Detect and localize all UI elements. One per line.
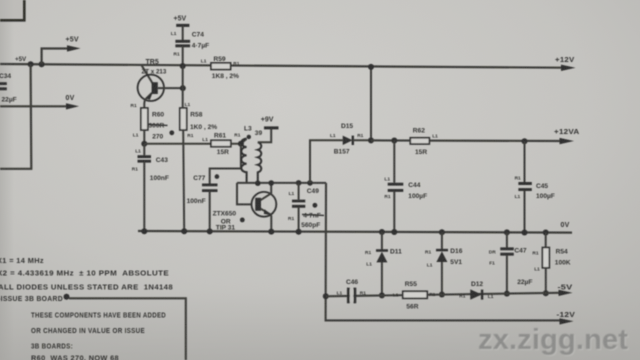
wire C45 to 0V bus [524, 191, 526, 232]
watermark zx.zigg.net [478, 324, 630, 357]
arrow +12V (top right) [561, 65, 576, 71]
top-left darker page corner [0, 0, 24, 20]
resistor R55 [403, 291, 427, 298]
node R54/0V [543, 230, 549, 236]
node C44 top [391, 138, 397, 144]
capacitor C47 plates [500, 249, 514, 254]
capacitor C45 plates [518, 184, 531, 190]
wire +5V bar to C74 [182, 25, 184, 40]
zener D16 [436, 249, 448, 252]
resistor R60 [141, 108, 148, 130]
node C49 top [296, 180, 302, 186]
transistor TR4 circle [252, 192, 277, 217]
border corner of adjacent drawing frame [0, 0, 24, 20]
wire TR4 base drop [237, 183, 252, 205]
arrow +12VA [560, 138, 575, 144]
capacitor C46 plates [348, 288, 355, 304]
capacitor C43 wire [143, 144, 145, 156]
transformer L3 left winding [241, 139, 246, 183]
resistor R59 [211, 63, 231, 70]
marker dot (L3) [247, 135, 251, 139]
transistor TR5 circle [138, 75, 164, 101]
resistor R54 wire top [545, 233, 547, 248]
arrow 0V [66, 103, 79, 109]
node TR5 base junction [180, 85, 186, 91]
node TR4/0V [268, 229, 274, 235]
wire left vertical from bus down then off left edge [0, 64, 31, 169]
node C49/0V [296, 229, 302, 235]
node D15 branch [307, 180, 313, 186]
left edge shade [0, 0, 14, 360]
diode D15 [343, 136, 353, 145]
arrow +5V [67, 45, 81, 51]
node +12VA line / feed [368, 137, 374, 143]
capacitor C74 +5V rail bar [176, 24, 189, 27]
wire right winding top to +9V [258, 129, 271, 142]
node R61/C77 junction [238, 141, 244, 147]
resistor R54 [542, 248, 549, 268]
arrow -5V [559, 290, 573, 296]
node right winding bottom on flyback line [255, 180, 261, 186]
capacitor C45 wire [524, 141, 526, 182]
wire -5V line [326, 293, 559, 297]
capacitor C34 plates at left edge [0, 84, 7, 89]
resistor R58 [180, 108, 187, 130]
marker dot (C77 change) [215, 174, 220, 179]
wire R60 node to transformer (base drive) [144, 139, 246, 144]
capacitor C49 wire top [298, 183, 300, 200]
node C44/0V [391, 229, 397, 235]
capacitor C74 plates [175, 41, 190, 46]
transistor TR5 base bar [152, 82, 158, 94]
node C45 top [522, 138, 528, 144]
node TR4 collector on flyback line [268, 180, 274, 186]
wire C44 to 0V bus [393, 191, 395, 232]
zener D11 [376, 249, 388, 252]
capacitor C49 plates [292, 201, 305, 206]
marker dot (R60 change) [169, 130, 174, 135]
wire TR5 base to R58 node [158, 87, 183, 89]
node C47/-5V [504, 291, 510, 297]
bottom shadow band [0, 290, 640, 360]
wire C47 to -5V [506, 255, 508, 294]
marker star (issue note) [64, 294, 70, 300]
transistor TR5 emitter with arrow [144, 93, 152, 108]
node C43/0V [141, 228, 147, 234]
transformer L3 right winding [258, 142, 261, 183]
+9V rail bar [264, 126, 279, 129]
wire D15 to +12VA line [353, 139, 371, 141]
transistor TR5 collector branch from bus [142, 65, 154, 84]
wire flyback node line (TR4 collector rail) [237, 182, 326, 184]
wire +5V top bus [0, 64, 562, 68]
node bus/C74/R59 junction [180, 63, 186, 69]
node R58/0V [181, 228, 187, 234]
wire C49 to 0V bus [298, 207, 300, 232]
node C47/0V [504, 229, 510, 235]
wire D15 branch up [310, 140, 343, 183]
wire R60 to node [143, 130, 145, 144]
transistor TR4 base bar [255, 198, 261, 211]
node +5V bus junction arrow branch [39, 61, 45, 67]
wire 0V bus [138, 231, 572, 233]
capacitor C43 plates [138, 157, 152, 162]
capacitor C44 wire [393, 141, 395, 183]
wire R54 to -5V [545, 268, 547, 293]
zener D16 wire top [441, 232, 443, 249]
issue note box line [69, 298, 186, 360]
wire +5V arrow branch [42, 49, 68, 65]
resistor R61 [211, 140, 231, 146]
wire -12V long vertical from flyback corner [326, 183, 560, 321]
node D11/0V [379, 229, 385, 235]
zener D11 wire top [381, 232, 383, 250]
wire C77 to 0V bus [209, 191, 211, 231]
node C77/0V [207, 228, 213, 234]
wire 0V arrow line [0, 105, 67, 107]
transistor TR4 collector [261, 183, 272, 200]
wire R58 top to bus [182, 66, 184, 108]
node D11/-5V [379, 292, 385, 298]
wire +12V feed vertical [370, 67, 372, 140]
node +5V bus junction left [28, 61, 34, 67]
wire C43 to 0V bus [143, 162, 145, 232]
marker dot (TR4 change) [240, 218, 245, 223]
diode D12 [470, 289, 482, 299]
wire R58 bottom to 0V bus [183, 130, 184, 231]
capacitor C44 plates [388, 184, 404, 190]
transistor TR4 emitter with arrow [261, 209, 272, 232]
wire +12VA line [371, 139, 560, 142]
capacitor C47 wire top [506, 232, 508, 247]
marker dot (C49 change) [313, 203, 318, 208]
node D16/0V [439, 229, 445, 235]
arrow -12V [560, 318, 574, 324]
capacitor C46 mask [350, 290, 353, 301]
wire C77 branch [210, 144, 241, 184]
node D16/-5V [439, 292, 445, 298]
resistor R62 [410, 138, 429, 144]
node R54/-5V [543, 290, 549, 296]
node -5V line start [323, 293, 329, 299]
node C45/0V [522, 230, 528, 236]
wire C74 to bus [182, 46, 184, 66]
capacitor C77 plates [202, 185, 218, 191]
node top bus / +12V feed [368, 64, 374, 70]
node R60/C43/R61 junction [141, 141, 147, 147]
